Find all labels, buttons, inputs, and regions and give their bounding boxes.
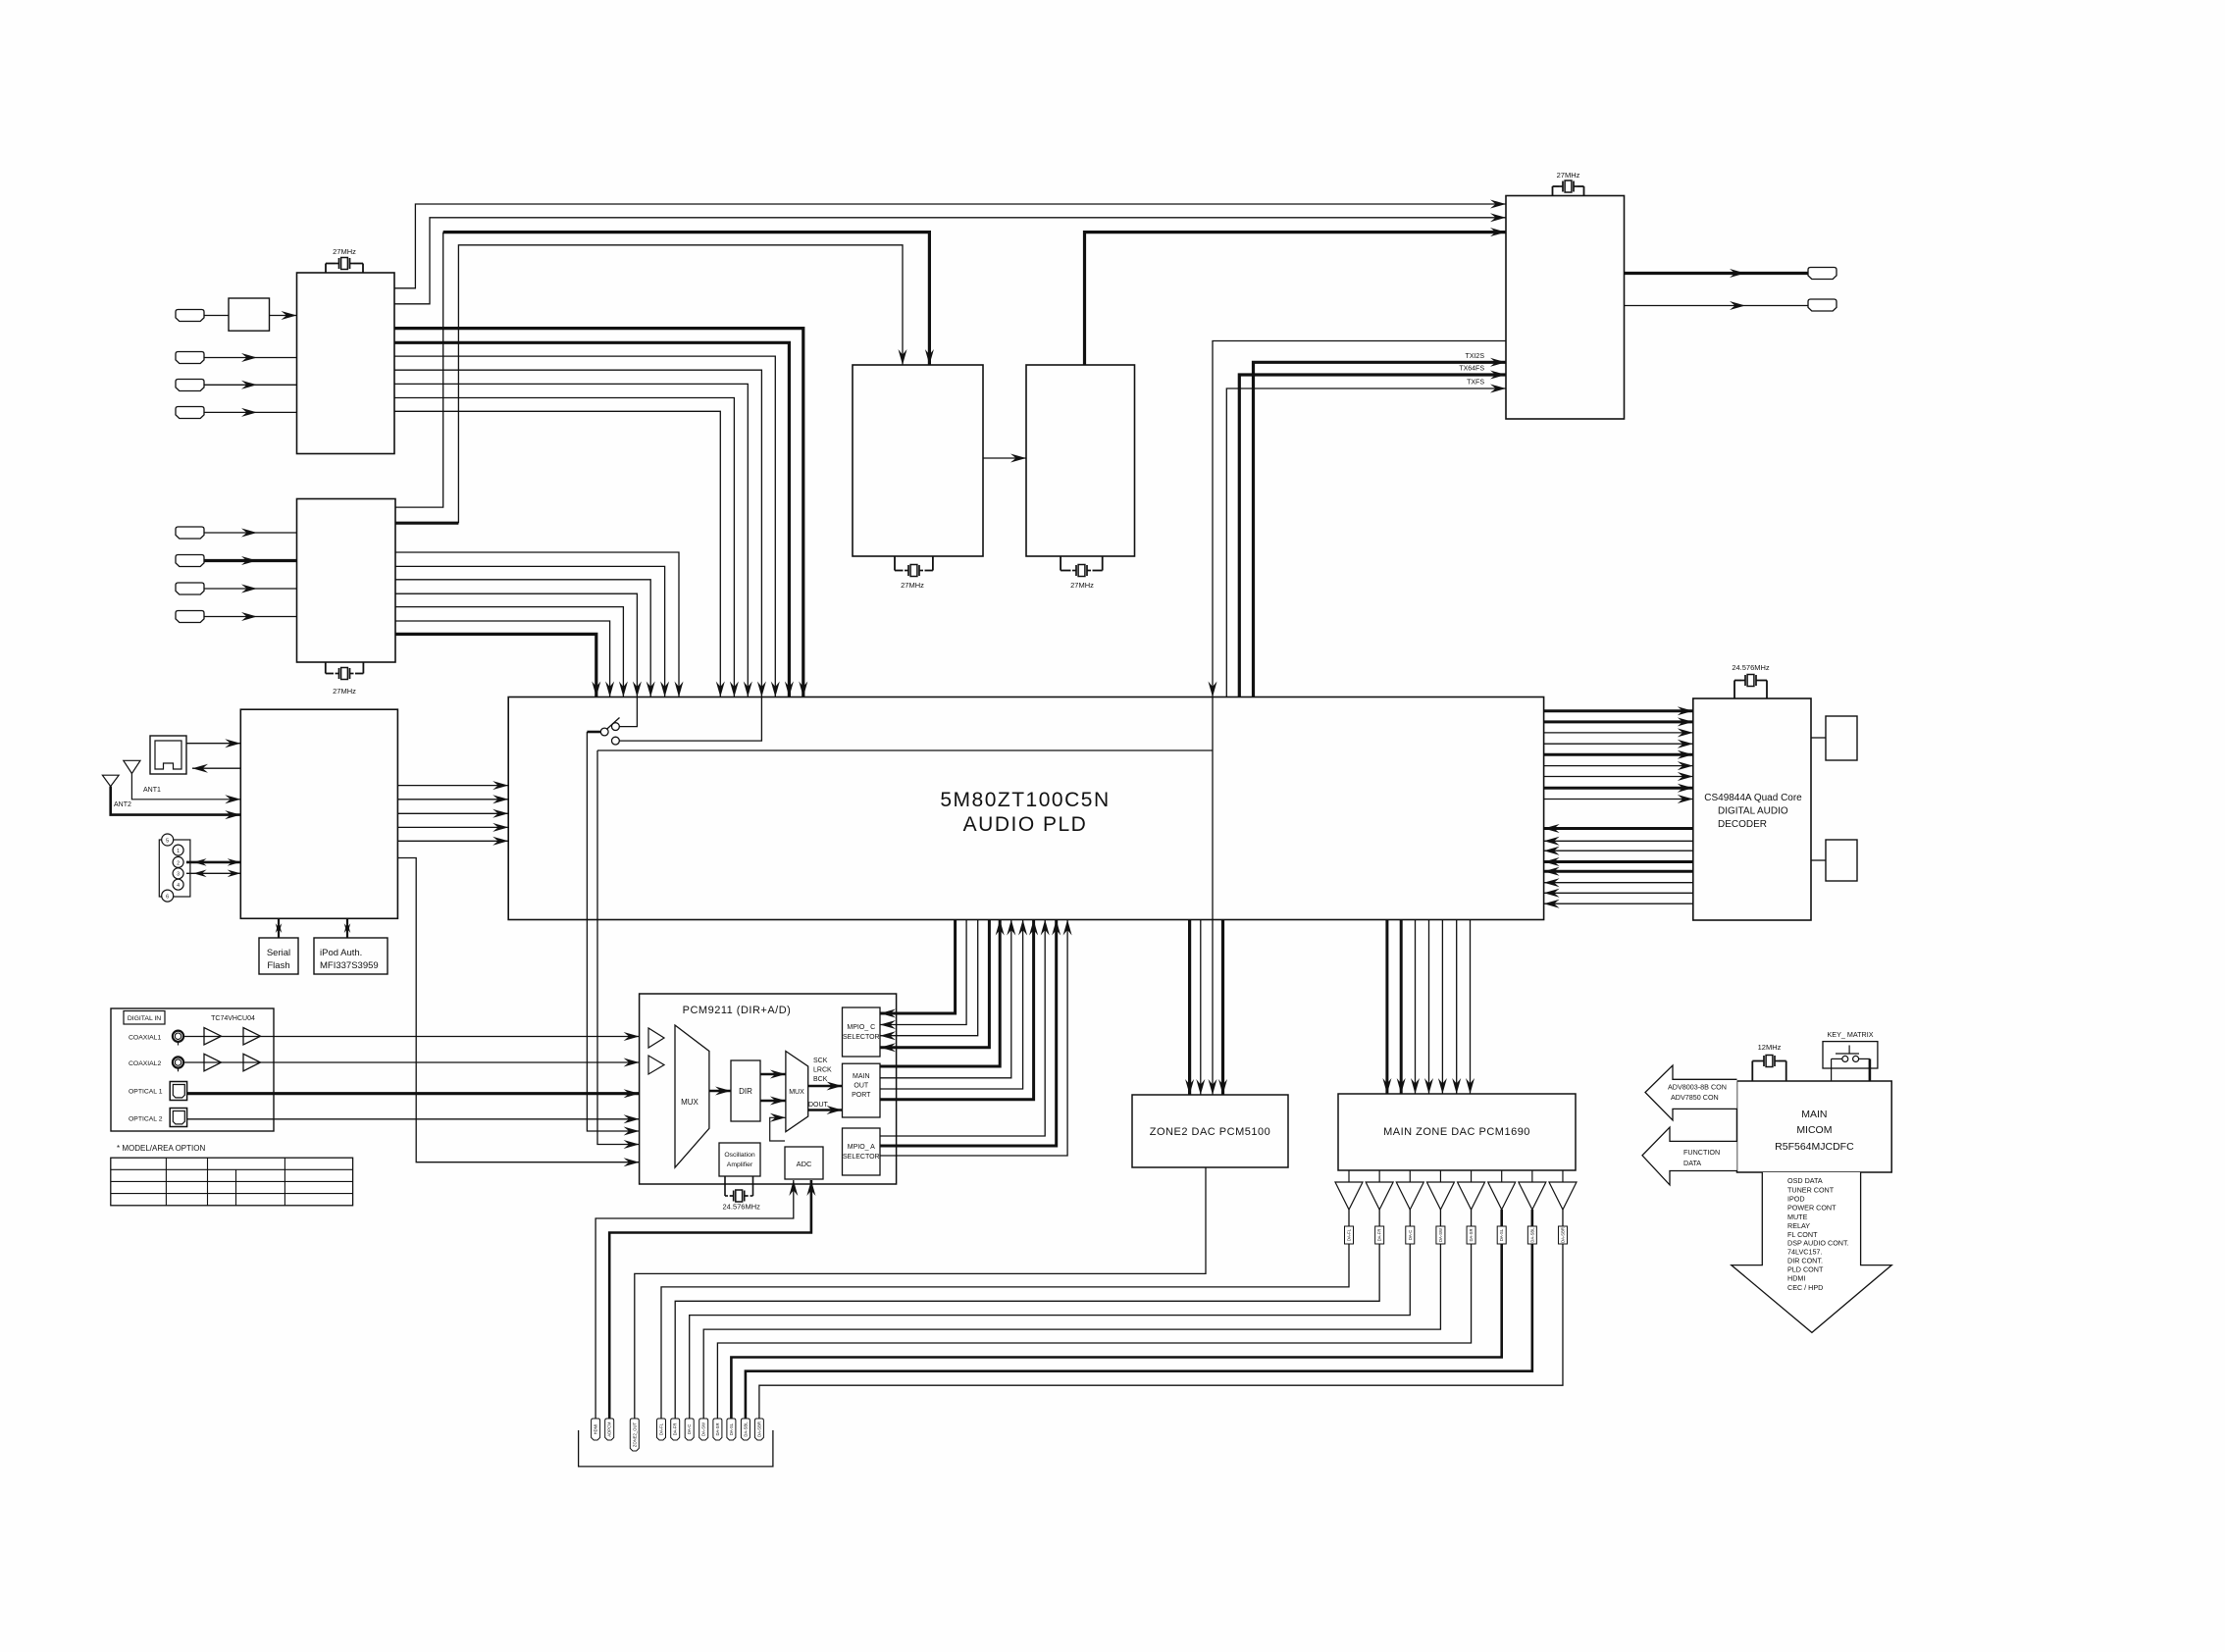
wire U7 to PLD 5 (397, 840, 508, 842)
mux M1 (675, 1025, 709, 1167)
connector output stub DA-SBL (741, 1419, 750, 1440)
block U2 HDMI receiver 2 (left) (297, 499, 396, 663)
crystal X6 24.576MHz (above U10) (1733, 681, 1735, 699)
svg-text:DA-SBL: DA-SBL (1529, 1227, 1534, 1243)
wire decoder to PLD 2 (1544, 840, 1693, 842)
svg-text:ADV8003-8B CON: ADV8003-8B CON (1668, 1083, 1727, 1092)
wire J2 pin3 to U7 (186, 872, 240, 874)
svg-text:2: 2 (177, 860, 180, 866)
wire U2 out4 to PLD (395, 594, 637, 697)
svg-text:Serial: Serial (267, 948, 290, 958)
wire PLD to decoder 9 (1544, 799, 1693, 800)
connector J1 RJ45 jack (150, 736, 186, 774)
wire U1 out2 to PLD (394, 342, 789, 697)
wire decoder to PLD 4 (1544, 860, 1693, 863)
mux M2 (786, 1052, 808, 1132)
svg-text:DA-SBR: DA-SBR (1560, 1227, 1565, 1243)
svg-text:27MHz: 27MHz (901, 581, 924, 590)
wire PLD to decoder 3 (1544, 732, 1693, 734)
wire U2 out A to U3 (395, 232, 443, 507)
buffer B2b (243, 1054, 261, 1071)
wire PLD to MAIN DAC 4 (1428, 920, 1430, 1095)
wire DA-SL to output stub (731, 1244, 1501, 1419)
wire MAIN OUT PORT to PLD 3 (880, 920, 1023, 1090)
svg-text:SELECTOR: SELECTOR (843, 1154, 880, 1161)
wire COAXIAL2 to PCM9211 (183, 1061, 639, 1063)
block MAIN OUT PORT (843, 1063, 881, 1117)
wire PLD to MAIN DAC 3 (1415, 920, 1417, 1095)
switch SW2 key (1842, 1056, 1848, 1061)
wire KEY_MATRIX to MICOM 2 (1859, 1058, 1870, 1059)
wire U2 out6 to PLD (395, 621, 610, 697)
svg-text:iPod Auth.: iPod Auth. (320, 948, 362, 958)
wire PLD to ZONE2 DAC 2 (1200, 920, 1202, 1096)
ferrite bead FB6 DA-SL (1497, 1226, 1506, 1244)
svg-text:DA-SW: DA-SW (701, 1422, 706, 1436)
wire DA-FL to output stub (661, 1244, 1349, 1419)
wire U7 to PLD 3 (397, 812, 508, 814)
connector HDMI-IN2 stub (176, 352, 204, 364)
connector output stub DA-SW (699, 1419, 708, 1440)
buffer A1 (648, 1028, 664, 1048)
amplifier A5 (DAC out DA-C) (1409, 1170, 1411, 1182)
svg-text:DA-FL: DA-FL (1347, 1228, 1352, 1241)
wire PLD to MPIO_C 2 (880, 920, 966, 1025)
wire ANT2 to U7 (111, 787, 241, 815)
ferrite bead FB7 DA-SBL (1527, 1226, 1536, 1244)
buffer B1a (204, 1028, 222, 1046)
wire U2 out2 to PLD (395, 566, 665, 697)
wire DIR to M2 b (760, 1100, 786, 1102)
wire U2 out3 to PLD (395, 580, 650, 697)
svg-text:COAXIAL1: COAXIAL1 (129, 1035, 161, 1042)
wire HDMI-IN4 to U1 (204, 411, 297, 413)
svg-text:DIGITAL IN: DIGITAL IN (128, 1015, 161, 1022)
wire J2 pin2 to U7 (186, 861, 240, 864)
svg-text:DA-C: DA-C (687, 1424, 692, 1434)
svg-text:MAIN ZONE DAC PCM1690: MAIN ZONE DAC PCM1690 (1383, 1126, 1530, 1138)
wire U7 to PLD 1 (397, 785, 508, 787)
block KEY_MATRIX (1823, 1042, 1878, 1068)
wire TXI2S (1254, 362, 1507, 697)
buffer B1b (243, 1028, 261, 1046)
wire OPTICAL2 to PCM9211 (187, 1118, 640, 1120)
block U8 Serial Flash (259, 938, 298, 974)
block DIGITAL IN TC74VHCU04 (111, 1008, 274, 1131)
wire U5 to HDMI-OUT2 (1625, 305, 1809, 307)
wire U7 to PCM9211 RX6 (397, 858, 639, 1162)
crystal X2 27MHz (below U2) (325, 662, 327, 674)
svg-text:BCK: BCK (813, 1076, 828, 1083)
svg-text:DA-SR: DA-SR (1469, 1228, 1474, 1241)
wire ADC input 2 (609, 1180, 811, 1419)
wire U1 out6 to PLD (394, 398, 734, 697)
svg-text:3: 3 (177, 872, 180, 878)
ferrite bead FB5 DA-SR (1467, 1226, 1475, 1244)
connector output stub DA-SL (727, 1419, 736, 1440)
connector output stub ZONE2_OUT (630, 1419, 639, 1451)
svg-text:ZONE2 DAC PCM5100: ZONE2 DAC PCM5100 (1150, 1126, 1270, 1138)
svg-text:R5F564MJCDFC: R5F564MJCDFC (1775, 1141, 1854, 1153)
svg-text:5: 5 (166, 839, 169, 845)
ferrite bead FB3 DA-C (1406, 1226, 1415, 1244)
wire U1 out B to U5 (394, 218, 1506, 304)
wire U5 to HDMI-OUT1 (1625, 272, 1809, 275)
svg-text:27MHz: 27MHz (1070, 581, 1094, 590)
svg-text:POWER CONT: POWER CONT (1787, 1204, 1837, 1213)
wire DA-SW to output stub (703, 1244, 1440, 1419)
antenna ANT2 (102, 775, 119, 786)
wire U1 out7 to PLD (394, 411, 720, 697)
svg-text:Flash: Flash (267, 960, 289, 971)
wire PLD to decoder 2 (1544, 720, 1693, 723)
bracket output connector group (579, 1430, 773, 1467)
amplifier A10 (DAC out DA-SBR) (1562, 1170, 1564, 1182)
connector COAXIAL2 (173, 1057, 183, 1067)
svg-text:IPOD: IPOD (1787, 1195, 1805, 1204)
wire PLD to decoder 8 (1544, 787, 1693, 790)
svg-text:ADPCM: ADPCM (607, 1421, 612, 1437)
ferrite bead FB8 DA-SBR (1558, 1226, 1567, 1244)
wire OPTICAL1 to PCM9211 (187, 1092, 640, 1095)
crystal X5 27MHz (above U5) (1552, 186, 1554, 196)
wire TXFS (1226, 388, 1506, 697)
svg-text:TXFS: TXFS (1467, 380, 1484, 387)
wire PLD to MAIN DAC 2 (1400, 920, 1403, 1095)
svg-text:TX64FS: TX64FS (1459, 366, 1484, 373)
connector COAXIAL1 (173, 1031, 183, 1042)
block U7 network/iPod module (240, 709, 397, 918)
amplifier A7 (DAC out DA-SR) (1471, 1170, 1473, 1182)
svg-text:4: 4 (177, 883, 180, 889)
svg-text:SCK: SCK (813, 1058, 828, 1064)
wire ADC to M2 (770, 1117, 786, 1141)
svg-text:CEC / HPD: CEC / HPD (1787, 1283, 1823, 1292)
connector OPTICAL1 (170, 1082, 186, 1101)
amplifier A3 (DAC out DA-FL) (1348, 1170, 1350, 1182)
wire HDMI-IN6 to U2 (204, 559, 297, 562)
svg-text:DA-SW: DA-SW (1438, 1228, 1443, 1242)
svg-text:PORT: PORT (852, 1092, 871, 1099)
svg-text:DA-FR: DA-FR (1377, 1229, 1382, 1242)
wire MPIO_A to PLD 2 (880, 920, 1057, 1147)
connector HDMI-OUT2 stub (1808, 299, 1837, 311)
svg-text:DECODER: DECODER (1718, 819, 1767, 830)
wire decoder to aux box 2 (1811, 859, 1826, 861)
block U3 video DSP A (middle) (853, 365, 983, 556)
wire decoder to PLD 8 (1544, 903, 1693, 904)
buffer A2 (648, 1056, 664, 1074)
crystal X8 24.576MHz (below U14) (724, 1176, 726, 1196)
svg-text:TUNER CONT: TUNER CONT (1787, 1186, 1835, 1195)
wire U3 to U4 (983, 457, 1026, 459)
svg-text:DA-FL: DA-FL (659, 1422, 664, 1435)
wire decoder to PLD 3 (1544, 850, 1693, 852)
svg-text:MAIN: MAIN (853, 1073, 870, 1080)
amplifier A6 (DAC out DA-SW) (1439, 1170, 1441, 1182)
connector J10 decoder aux box 1 (1826, 716, 1857, 760)
svg-text:OPTICAL 2: OPTICAL 2 (129, 1116, 163, 1123)
wire U4 TX to U5 (1085, 232, 1507, 365)
connector J11 decoder aux box 2 (1826, 840, 1857, 881)
svg-text:27MHz: 27MHz (333, 687, 356, 696)
svg-text:MUX: MUX (789, 1089, 804, 1096)
switch SW1 throw1 wire (619, 697, 637, 727)
svg-text:DSP AUDIO CONT.: DSP AUDIO CONT. (1787, 1239, 1849, 1248)
svg-text:DA-SL: DA-SL (729, 1422, 734, 1435)
connector output stub DA-C (685, 1419, 694, 1440)
svg-text:HDMI: HDMI (594, 1424, 598, 1435)
wire U7 to iPod Auth (346, 918, 348, 938)
block U12 MAIN ZONE DAC PCM1690 (1338, 1094, 1576, 1170)
ferrite bead FB2 DA-FR (1375, 1226, 1384, 1244)
block U6 5M80ZT100C5N AUDIO PLD (508, 697, 1543, 920)
svg-text:DIR: DIR (739, 1087, 752, 1096)
wire U1 out3 to PLD (394, 356, 775, 697)
wire U2 out7 to PLD (395, 634, 596, 697)
svg-text:DA-SL: DA-SL (1499, 1228, 1504, 1241)
svg-text:DOUT: DOUT (808, 1102, 829, 1109)
wire U5 ARC to PLD and ZONE2 (1213, 341, 1506, 1096)
wire U2 out B to U3 (395, 522, 458, 525)
wire U7 to RJ45 (192, 767, 240, 769)
connector output stub DA-FL (657, 1419, 666, 1440)
svg-text:COAXIAL2: COAXIAL2 (129, 1060, 161, 1067)
wire HDMI-IN2 to U1 (204, 357, 297, 359)
block U14 PCM9211 (DIR+A/D) (640, 994, 897, 1184)
amplifier A8 (DAC out DA-SL) (1501, 1170, 1503, 1182)
wire KEY_MATRIX to MICOM 1 (1832, 1058, 1842, 1059)
wire PLD to decoder 4 (1544, 743, 1693, 745)
wire decoder to PLD 5 (1544, 870, 1693, 873)
svg-text:MICOM: MICOM (1796, 1124, 1832, 1136)
svg-text:Amplifier: Amplifier (727, 1162, 753, 1168)
wire MAIN OUT PORT to PLD 1 (880, 920, 1000, 1067)
wire PLD to MAIN DAC 6 (1456, 920, 1458, 1095)
wire U1 out1 to PLD (394, 329, 803, 697)
crystal X1 27MHz (above U1) (325, 264, 327, 274)
wire PLD to decoder 7 (1544, 776, 1693, 778)
svg-text:MAIN: MAIN (1801, 1109, 1827, 1120)
wire DA-SBR to output stub (759, 1244, 1563, 1419)
wire ZONE2 DAC out (635, 1167, 1206, 1419)
connector output stub DA-FR (671, 1419, 680, 1440)
svg-text:AUDIO PLD: AUDIO PLD (963, 813, 1088, 836)
wire PLD to decoder 6 (1544, 765, 1693, 767)
wire PLD to decoder 1 (1544, 709, 1693, 712)
wire decoder to PLD 7 (1544, 892, 1693, 894)
wire U1 out4 to PLD (394, 370, 761, 697)
svg-text:DA-C: DA-C (1408, 1230, 1413, 1240)
block ADC (785, 1147, 823, 1179)
wire HDMI-IN3 to U1 (204, 384, 297, 386)
wire PLD internal bus (597, 749, 1213, 751)
svg-text:DIGITAL AUDIO: DIGITAL AUDIO (1718, 806, 1788, 817)
wire PLD to MAIN DAC 7 (1470, 920, 1472, 1095)
wire PLD to MAIN DAC 1 (1385, 920, 1388, 1095)
svg-text:OUT: OUT (854, 1083, 869, 1090)
block U9 iPod Auth MFI337S3959 (314, 938, 388, 974)
amplifier A4 (DAC out DA-FR) (1378, 1170, 1380, 1182)
svg-text:OSD DATA: OSD DATA (1787, 1176, 1823, 1185)
svg-text:ANT1: ANT1 (143, 787, 161, 794)
connector HDMI-IN6 stub (176, 555, 204, 567)
svg-text:ADC: ADC (797, 1160, 812, 1168)
block EDID/level shifter (229, 298, 270, 331)
wire DIR to M2 a (760, 1073, 786, 1075)
wire PLD to MPIO_C 4 (880, 920, 989, 1048)
svg-text:5M80ZT100C5N: 5M80ZT100C5N (940, 789, 1110, 811)
svg-text:CS49844A Quad Core: CS49844A Quad Core (1704, 793, 1802, 803)
wire COAXIAL1 to PCM9211 (183, 1036, 639, 1038)
wire U2 out5 to PLD (395, 607, 623, 697)
ferrite bead FB1 DA-FL (1345, 1226, 1354, 1244)
svg-text:MUTE: MUTE (1787, 1213, 1808, 1221)
connector output stub ADPCM (605, 1419, 614, 1440)
block U5 HDMI transmitter (top-right) (1506, 196, 1625, 420)
wire MAIN OUT PORT to PLD 4 (880, 920, 1034, 1100)
wire RJ45 to U7 (186, 743, 240, 745)
wire PLD to ZONE2 DAC 3 (1221, 920, 1224, 1096)
wire decoder to PLD 1 (1544, 827, 1693, 830)
wire DA-C to output stub (690, 1244, 1411, 1419)
ferrite bead FB4 DA-SW (1436, 1226, 1445, 1244)
wire HDMI-IN8 to U2 (204, 616, 297, 618)
block U4 video DSP B (middle) (1026, 365, 1135, 556)
wire ANT1 to U7 (131, 774, 240, 800)
block U13 MAIN MICOM R5F564MJCDFC (1737, 1081, 1892, 1172)
svg-text:TXI2S: TXI2S (1466, 353, 1485, 360)
wire U7 to PLD 2 (397, 799, 508, 800)
wire MPIO_A to PLD 1 (880, 920, 1045, 1137)
svg-text:MFI337S3959: MFI337S3959 (320, 960, 379, 971)
block MPIO_A SELECTOR (843, 1128, 881, 1175)
connector HDMI-IN8 stub (176, 611, 204, 623)
block MPIO_C SELECTOR (843, 1007, 881, 1057)
connector HDMI-IN7 stub (176, 583, 204, 594)
block DIR (731, 1060, 760, 1121)
connector HDMI-IN3 stub (176, 380, 204, 391)
crystal X7 12MHz (above U13) (1751, 1061, 1753, 1082)
wire TX64FS (1239, 375, 1506, 697)
svg-text:RELAY: RELAY (1787, 1221, 1810, 1230)
antenna ANT1 (124, 760, 140, 773)
svg-text:Oscillation: Oscillation (724, 1152, 755, 1159)
svg-text:DIR CONT.: DIR CONT. (1787, 1257, 1823, 1265)
wire PLD bus to PCM9211 RX5 (597, 750, 640, 1145)
connector J2 iPod dock pins (159, 840, 190, 897)
wire MPIO_A to PLD 3 (880, 920, 1067, 1157)
connector output stub DA-SR (713, 1419, 722, 1440)
svg-text:ZONE2_OUT: ZONE2_OUT (632, 1421, 637, 1447)
svg-text:ADV7850 CON: ADV7850 CON (1671, 1093, 1719, 1102)
svg-text:OPTICAL 1: OPTICAL 1 (129, 1089, 163, 1096)
svg-text:* MODEL/AREA OPTION: * MODEL/AREA OPTION (117, 1144, 205, 1153)
wire PLD to MAIN DAC 5 (1441, 920, 1443, 1095)
crystal X3 27MHz (below U3) (894, 556, 896, 571)
wire PLD to MPIO_C 1 (880, 920, 956, 1014)
block arrow FUNCTION DATA (1642, 1127, 1737, 1185)
wire U2 out1 to PLD (395, 552, 679, 697)
block Oscillation Amplifier (719, 1143, 760, 1176)
wire HDMI-IN7 to U2 (204, 588, 297, 590)
wire M2 DOUT to MAIN OUT PORT (808, 1109, 843, 1110)
svg-text:6: 6 (166, 895, 169, 901)
wire U7 to PLD 4 (397, 826, 508, 828)
svg-text:TC74VHCU04: TC74VHCU04 (211, 1015, 255, 1022)
wire PLD to MPIO_C 3 (880, 920, 978, 1036)
svg-text:LRCK: LRCK (813, 1067, 832, 1074)
svg-text:27MHz: 27MHz (333, 247, 356, 256)
wire MAIN OUT PORT to PLD 2 (880, 920, 1011, 1078)
wire M2 to MAIN OUT PORT (808, 1085, 843, 1087)
wire U1 out A to U5 (394, 204, 1506, 288)
wire U7 to Serial Flash (278, 918, 280, 938)
svg-text:PCM9211 (DIR+A/D): PCM9211 (DIR+A/D) (683, 1005, 792, 1016)
block U1 HDMI receiver (top-left) (297, 273, 395, 454)
wire ADC input 1 (595, 1180, 794, 1419)
wire DA-SR to output stub (717, 1244, 1471, 1419)
connector HDMI-IN4 stub (176, 407, 204, 419)
buffer B2a (204, 1054, 222, 1071)
switch SW1 throw2 wire (619, 697, 761, 742)
svg-text:HDMI: HDMI (1787, 1274, 1805, 1283)
svg-text:12MHz: 12MHz (1758, 1043, 1782, 1052)
connector HDMI-OUT1 stub (1808, 268, 1837, 280)
svg-text:SELECTOR: SELECTOR (843, 1034, 880, 1041)
block U10 CS49844A digital audio decoder (1693, 698, 1811, 920)
svg-text:27MHz: 27MHz (1557, 171, 1580, 180)
svg-text:DATA: DATA (1683, 1159, 1701, 1167)
svg-text:KEY_ MATRIX: KEY_ MATRIX (1828, 1030, 1874, 1039)
wire SW1 common to PCM9211 RX4 (587, 731, 600, 734)
svg-text:DA-SBL: DA-SBL (743, 1421, 748, 1437)
svg-text:PLD CONT: PLD CONT (1787, 1265, 1824, 1274)
wire DA-SBL to output stub (746, 1244, 1532, 1419)
svg-text:FUNCTION: FUNCTION (1683, 1148, 1720, 1157)
wire decoder to PLD 6 (1544, 882, 1693, 884)
block arrow to ADV8003-8B/ADV7850 (1645, 1065, 1737, 1120)
wire PLD to ZONE2 DAC 1 (1188, 920, 1191, 1096)
wire PLD to decoder 5 (1544, 753, 1693, 756)
wire DA-FR to output stub (675, 1244, 1379, 1419)
svg-text:MPIO_ C: MPIO_ C (847, 1024, 875, 1031)
svg-text:24.576MHz: 24.576MHz (723, 1203, 761, 1212)
svg-text:DA-SBR: DA-SBR (756, 1421, 761, 1437)
wire EDID box to U1 (270, 315, 297, 317)
wire M1 to DIR (709, 1090, 731, 1092)
svg-text:DA-FR: DA-FR (673, 1423, 678, 1436)
wire decoder to aux box 1 (1811, 737, 1826, 739)
svg-text:DA-SR: DA-SR (715, 1422, 720, 1435)
connector HDMI-IN5 stub (176, 527, 204, 539)
wire HDMI-IN1 to EDID box (204, 315, 229, 317)
wire HDMI-IN5 to U2 (204, 532, 297, 534)
amplifier A9 (DAC out DA-SBL) (1531, 1170, 1533, 1182)
svg-text:74LVC157.: 74LVC157. (1787, 1248, 1822, 1257)
switch SW1 (600, 728, 608, 736)
connector output stub DA-SBR (754, 1419, 763, 1440)
wire U1 out5 to PLD (394, 384, 748, 697)
svg-text:24.576MHz: 24.576MHz (1732, 663, 1770, 672)
block U11 ZONE2 DAC PCM5100 (1132, 1095, 1288, 1167)
connector HDMI-IN1 stub (176, 310, 204, 322)
svg-text:1: 1 (177, 849, 180, 854)
block arrow MICOM control outputs (1732, 1172, 1891, 1332)
connector output stub HDMI (592, 1419, 600, 1440)
svg-text:MUX: MUX (681, 1098, 699, 1107)
svg-text:MPIO_ A: MPIO_ A (848, 1144, 875, 1151)
